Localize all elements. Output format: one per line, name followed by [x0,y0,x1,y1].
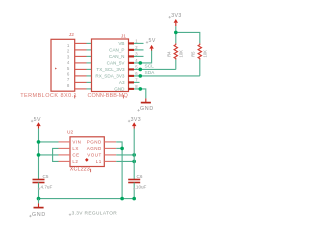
svg-text:10uF: 10uF [136,185,147,190]
svg-text:TX_SCL_3V3: TX_SCL_3V3 [96,67,125,72]
junction AGND [120,147,124,151]
svg-text:VOUT: VOUT [87,153,102,158]
U2 pins left (VIN, LX, CE, L2) [59,142,71,162]
svg-text:3V3: 3V3 [131,117,141,123]
junction row4 [139,61,143,65]
power symbol 3V3 (regulator output) [131,117,141,129]
svg-text:4.7uF: 4.7uF [41,185,53,190]
svg-text:CAN_P: CAN_P [109,47,124,52]
wire net A3 (row7 stub) [134,81,140,83]
svg-text:SCL: SCL [145,64,155,70]
wires J2 to J1 (8 nets) [87,43,93,89]
svg-text:CAN_N: CAN_N [109,54,125,59]
junction row6 [139,74,143,78]
svg-text:C6: C6 [137,174,143,179]
svg-text:XCL223: XCL223 [70,167,90,173]
connector J2 (terminal block) [51,39,75,91]
svg-text:GND: GND [114,86,125,91]
ground symbol (regulator) [32,203,46,218]
J1 pin names [95,41,125,92]
svg-text:R4: R4 [167,51,172,57]
svg-text:AGND: AGND [87,146,102,151]
svg-text:R5: R5 [191,51,196,57]
U2 pin names right [87,140,102,165]
wire net SCL row5 [134,68,176,70]
svg-text:CONN-BBB-MQ: CONN-BBB-MQ [88,93,129,99]
svg-text:TERMBLOCK 8X0.1: TERMBLOCK 8X0.1 [20,93,77,99]
J2 pin numbers 1-8 [67,43,70,88]
svg-text:RX_SDA_3V3: RX_SDA_3V3 [95,73,125,78]
XCL223 tail mark [90,169,92,172]
svg-text:CE: CE [72,153,79,158]
capacitor C5 [33,174,53,190]
svg-text:3V3: 3V3 [171,13,181,19]
svg-text:C5: C5 [43,174,49,179]
wire CE [39,154,59,156]
svg-text:U2: U2 [67,130,73,136]
junction CE [37,153,41,157]
J2 pins (red stubs) [75,43,87,89]
wire net CAN_N (row3 stub) [134,55,144,57]
svg-text:J2: J2 [69,32,74,38]
regulator U2 box [70,137,104,167]
power symbol 5V (regulator input) [34,117,41,129]
svg-text:10K: 10K [179,50,184,58]
svg-text:SDA: SDA [145,70,156,76]
wire net GND row8 down [134,89,146,99]
power symbol 3V3 (top right) [171,13,181,26]
power symbol 5V (top) [149,38,156,50]
wire net VB (row1 stub) [134,42,144,44]
wire L1 to 3V3 rail [116,160,134,162]
wire net CAN_5V row4 to 5V symbol [134,50,152,63]
wire net CAN_P (row2 stub) [134,49,144,51]
wire R4 bottom to SCL [175,60,177,70]
J1 pins (thick red stubs, right side) [128,43,134,89]
junction GND right [132,197,136,201]
resistor R5 (SDA pullup) [191,43,208,59]
svg-text:5V: 5V [149,38,156,44]
svg-text:J1: J1 [121,33,126,39]
wire 3V3 rail down to R4 [175,26,177,43]
svg-text:LX: LX [72,146,79,151]
wire net SDA row6 [134,75,200,77]
junction L1 [132,160,136,164]
svg-text:A3: A3 [119,80,125,85]
wire GND drop [38,199,40,204]
wire 5V rail (left) [38,129,40,180]
junction VOUT [132,153,136,157]
svg-text:10K: 10K [203,50,208,58]
wire C6 bottom to GND line [133,183,135,199]
J2 value tail mark [74,95,76,98]
U2 pin names left [72,140,81,165]
svg-text:GND: GND [32,212,46,218]
wire PGND to GND rail [116,142,122,199]
svg-text:CAN_5V: CAN_5V [107,60,126,65]
wire GND bus (bottom) [39,198,135,200]
svg-text:▸: ▸ [55,66,57,70]
junction 3V3 node [174,31,178,35]
J1 value tail mark [122,95,124,98]
wire LX-L2 loop [53,148,59,161]
junction GND rail A [120,197,124,201]
wire C5 bottom to GND line [38,183,40,199]
svg-text:L1: L1 [96,159,102,164]
wire VOUT to 3V3 rail [116,154,134,156]
svg-text:5V: 5V [34,117,41,123]
wire VIN [39,141,59,143]
capacitor C6 [128,174,146,190]
junction row5 [139,68,143,72]
junction VIN [37,140,41,144]
svg-text:L2: L2 [72,159,78,164]
wire 3V3 branch right to R5 [176,32,200,43]
wire R5 bottom to SDA [199,60,201,76]
connector J1 (CONN BBB-MQ) [92,39,129,92]
svg-text:3.3V REGULATOR: 3.3V REGULATOR [72,211,118,217]
text origin cross marks [29,16,171,217]
J1 pin numbers [135,38,138,89]
svg-text:PGND: PGND [87,140,102,145]
svg-text:VIN: VIN [72,140,81,145]
U2 pins right (PGND, AGND, VOUT, L1) [104,142,116,162]
wire AGND [116,147,122,149]
svg-text:VB: VB [118,41,124,46]
ground symbol (right of J1) [140,98,154,112]
wire 3V3 rail (right) [133,129,135,180]
junction row8 [139,87,143,91]
svg-text:GND: GND [140,106,154,112]
resistor R4 (SCL pullup) [167,43,184,59]
U2 center mark [85,158,89,162]
junction GND left [37,197,41,201]
